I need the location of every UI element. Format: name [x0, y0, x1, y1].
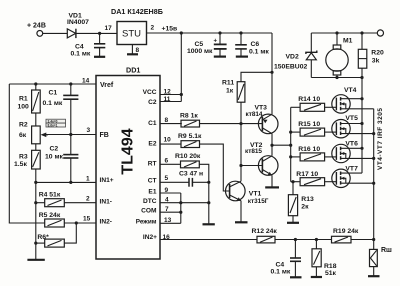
svg-text:R13: R13	[301, 196, 314, 203]
resistor R5	[39, 212, 96, 227]
svg-text:VCC: VCC	[143, 89, 157, 96]
voltage regulator DA1 STU box	[105, 7, 163, 45]
motor bottom wire	[311, 77, 362, 79]
svg-text:Vref: Vref	[100, 82, 114, 89]
divider chain wire	[35, 169, 37, 260]
note box (resistance table)	[46, 119, 66, 127]
resistor R15	[291, 121, 337, 136]
svg-text:R20: R20	[371, 50, 384, 57]
transistor VT2 kt815	[245, 142, 278, 175]
resistor R20	[358, 33, 384, 78]
node COM bracket	[179, 211, 182, 214]
motor M1	[326, 33, 353, 78]
node driver output	[270, 144, 273, 147]
svg-text:150EBU02: 150EBU02	[274, 64, 307, 71]
svg-text:8.6к=1: 8.6к=1	[48, 123, 58, 127]
svg-text:2к: 2к	[301, 203, 309, 210]
wire DTC pin4	[160, 202, 209, 204]
svg-text:VT7: VT7	[345, 165, 358, 172]
motor top wire	[311, 32, 377, 34]
svg-text:3: 3	[87, 127, 91, 134]
svg-text:R8 1к: R8 1к	[180, 112, 198, 119]
Vref wire pin14	[9, 83, 96, 85]
svg-text:R16 10: R16 10	[298, 146, 320, 153]
shunt resistor Rsh	[370, 240, 393, 276]
svg-text:1: 1	[86, 176, 90, 183]
resistor R1	[18, 84, 41, 113]
svg-text:E2: E2	[148, 141, 156, 148]
wire VT1 emitter to ground	[240, 201, 242, 222]
wire RT pin6 with R10	[160, 163, 181, 165]
svg-text:12: 12	[164, 89, 172, 96]
wire base line down to VT1 collector	[240, 124, 242, 182]
svg-text:RT: RT	[148, 161, 157, 168]
svg-text:2: 2	[151, 25, 155, 32]
svg-text:0.1 мк: 0.1 мк	[43, 100, 63, 107]
svg-text:0.1 мк: 0.1 мк	[71, 51, 91, 58]
MOSFET VT7	[332, 165, 374, 187]
svg-text:C1: C1	[148, 120, 157, 127]
svg-text:0.1 мк: 0.1 мк	[249, 49, 269, 56]
wire VT3 collector to node	[271, 134, 273, 146]
node R1 top	[34, 82, 37, 85]
drain rail	[361, 78, 363, 174]
node C5	[218, 31, 221, 34]
svg-text:C6: C6	[251, 41, 260, 48]
diode VD2 150EBU02	[274, 33, 317, 78]
svg-text:6: 6	[165, 158, 169, 165]
resistor R14	[291, 96, 337, 111]
IN1+ wire pin1	[36, 181, 96, 183]
svg-text:10: 10	[164, 137, 172, 144]
node chain/IN1+	[34, 181, 37, 184]
svg-text:2: 2	[86, 196, 90, 203]
node source rail / bus	[372, 238, 375, 241]
svg-text:C3 47 н: C3 47 н	[179, 171, 203, 178]
node M1 top	[335, 31, 338, 34]
svg-text:C1: C1	[49, 90, 58, 97]
node source VT6	[372, 157, 375, 160]
MOSFET VT4	[332, 87, 374, 113]
svg-text:IN4007: IN4007	[67, 19, 89, 26]
svg-text:R10 20к: R10 20к	[175, 153, 201, 160]
node gate rail R16	[289, 155, 292, 158]
node DTC ground line	[207, 201, 210, 204]
resistor R6	[34, 223, 76, 247]
node drain VT5	[360, 122, 363, 125]
node R20 top	[360, 31, 363, 34]
svg-text:R15 10: R15 10	[298, 121, 320, 128]
node VT2 base tap	[239, 164, 242, 167]
svg-text:кт814: кт814	[246, 111, 263, 118]
node drain rail top	[360, 76, 363, 79]
svg-text:E1: E1	[148, 189, 156, 196]
node drain VT6	[360, 147, 363, 150]
svg-text:IN2+: IN2+	[143, 234, 157, 241]
svg-text:R9 5.1к: R9 5.1к	[178, 133, 202, 140]
node C2/IN1+	[69, 181, 72, 184]
capacitor C2	[45, 135, 78, 183]
MOSFET VT6	[332, 140, 374, 162]
IC DD1 TL494 box	[96, 66, 160, 260]
wire +15 riser to VCC/C2 pins	[160, 33, 183, 102]
terminal +24V input	[37, 31, 43, 37]
svg-text:R14 10: R14 10	[298, 96, 320, 103]
svg-text:VD2: VD2	[286, 54, 299, 61]
wire input to VD1	[42, 32, 67, 34]
svg-text:10 мк: 10 мк	[45, 154, 63, 161]
wire E2 pin10 with R9	[160, 143, 181, 145]
svg-text:CT: CT	[148, 178, 157, 185]
node gate rail input	[289, 144, 292, 147]
svg-text:STU: STU	[122, 29, 141, 40]
resistor R9	[178, 133, 202, 148]
ground Rsh	[368, 275, 380, 277]
resistor R8	[180, 112, 200, 127]
svg-text:R17 10: R17 10	[296, 171, 318, 178]
resistor R3	[14, 150, 40, 169]
svg-text:IN1-: IN1-	[100, 199, 112, 206]
svg-text:C2: C2	[50, 146, 59, 153]
transistor VT1 kt315	[226, 181, 269, 205]
svg-text:DD1: DD1	[126, 66, 140, 75]
svg-text:0.1 мк: 0.1 мк	[271, 269, 291, 276]
bracket E1/DTC/COM/mode	[180, 193, 182, 223]
node R11 bottom / base line	[239, 122, 242, 125]
svg-text:M1: M1	[343, 38, 353, 45]
node R18/R19	[315, 238, 318, 241]
svg-text:R3: R3	[19, 154, 28, 161]
node C1 top	[69, 82, 72, 85]
transistor VT3 kt814	[246, 105, 279, 134]
svg-text:R12 24к: R12 24к	[252, 228, 278, 235]
svg-text:R2: R2	[19, 122, 28, 129]
wire E1 pin9	[160, 192, 181, 194]
resistor R16	[291, 146, 337, 161]
svg-text:R1: R1	[19, 96, 28, 103]
wire R1-R2	[35, 113, 37, 126]
svg-text:IN2-: IN2-	[100, 219, 112, 226]
node C1/FB	[69, 133, 72, 136]
svg-text:R11: R11	[222, 80, 234, 87]
wire R9 to VT1 base	[200, 144, 230, 191]
svg-text:15: 15	[83, 216, 91, 223]
capacitor C5 electrolytic	[187, 33, 227, 56]
+15 riser to driver	[271, 33, 273, 114]
resistor R13	[288, 180, 314, 222]
wire VD1 to STU pin17	[77, 32, 118, 34]
svg-text:51к: 51к	[325, 270, 337, 277]
ground C4 input	[94, 56, 105, 58]
capacitor C1	[43, 84, 79, 134]
svg-text:8: 8	[136, 47, 140, 54]
svg-text:R6*: R6*	[37, 234, 49, 241]
+15v rail	[147, 32, 273, 34]
svg-text:5: 5	[165, 175, 169, 182]
resistor R4	[34, 191, 96, 206]
svg-text:DTC: DTC	[143, 198, 157, 205]
capacitor C3	[179, 171, 209, 187]
svg-text:COM: COM	[141, 208, 157, 215]
node source VT5	[372, 132, 375, 135]
wire R10 to ground line	[199, 164, 209, 224]
svg-text:DA1 К142ЕН8Б: DA1 К142ЕН8Б	[111, 7, 163, 16]
svg-text:R19 24к: R19 24к	[333, 228, 359, 235]
ground C4 bottom	[290, 276, 302, 278]
svg-text:FB: FB	[100, 132, 109, 139]
gate rail	[290, 107, 292, 181]
ground VT2	[265, 186, 279, 188]
svg-text:R18: R18	[324, 263, 337, 270]
capacitor C6	[235, 33, 269, 56]
svg-text:TL494: TL494	[120, 128, 137, 174]
svg-text:100: 100	[18, 104, 30, 111]
svg-text:кт315Г: кт315Г	[248, 198, 269, 205]
resistor R17	[291, 171, 337, 186]
svg-text:6к: 6к	[19, 132, 27, 139]
svg-text:IN1+: IN1+	[100, 177, 114, 184]
wire R8 to VT3 base	[200, 123, 263, 125]
wire VT2 collector to node	[271, 145, 273, 156]
node gate rail R15	[289, 131, 292, 134]
svg-text:R5 24к: R5 24к	[39, 212, 61, 219]
svg-text:VT1: VT1	[249, 191, 262, 198]
capacitor C4 (input)	[71, 33, 106, 57]
node VCC riser	[180, 31, 183, 34]
wire mode pin13	[160, 222, 181, 224]
wire C1 pin8 with R8	[160, 123, 182, 125]
node CT/ground line	[207, 181, 210, 184]
svg-text:C5: C5	[195, 41, 204, 48]
node R6 riser on pin15 wire	[75, 221, 78, 224]
svg-text:3k: 3k	[372, 58, 380, 65]
svg-text:1.5к: 1.5к	[14, 161, 27, 168]
ground TL494 aux	[203, 223, 215, 225]
svg-text:VT4: VT4	[344, 87, 357, 94]
svg-text:VT5: VT5	[345, 115, 358, 122]
svg-text:Режим: Режим	[136, 219, 157, 226]
node DTC bracket	[179, 201, 182, 204]
terminal output	[377, 30, 383, 36]
ground chain	[27, 259, 44, 261]
svg-text:кт815: кт815	[245, 148, 262, 155]
svg-text:Rш: Rш	[381, 247, 392, 254]
node M1 bottom	[335, 76, 338, 79]
node drain VT4	[360, 97, 363, 100]
node C6	[239, 31, 242, 34]
svg-text:R4 51к: R4 51к	[39, 191, 61, 198]
capacitor C4 (bottom)	[271, 240, 302, 277]
resistor R10	[175, 153, 201, 168]
resistor R11	[222, 72, 272, 123]
svg-text:1к: 1к	[226, 88, 234, 95]
ground R18	[311, 276, 322, 278]
svg-text:C4: C4	[276, 262, 285, 269]
wire COM pin7	[160, 211, 181, 213]
potentiometer R2	[19, 122, 48, 144]
wire R2-R3	[35, 144, 37, 151]
pin 8 of STU to ground	[131, 45, 133, 54]
svg-text:8: 8	[165, 117, 169, 124]
resistor R19	[332, 228, 359, 243]
ground VT1	[235, 221, 248, 223]
svg-text:1000 мк: 1000 мк	[187, 48, 213, 55]
node source VT7	[372, 182, 375, 185]
svg-text:+ 24В: + 24В	[27, 23, 46, 30]
svg-text:17: 17	[105, 25, 113, 32]
svg-text:VT4-VT7 IRF 3205: VT4-VT7 IRF 3205	[377, 108, 384, 170]
resistor R18	[312, 240, 337, 278]
node C4 bottom tap	[294, 238, 297, 241]
ground C5	[214, 55, 226, 57]
svg-text:+15в: +15в	[162, 26, 178, 33]
svg-text:11: 11	[164, 96, 171, 103]
node R11 tap on +15 riser	[270, 71, 273, 74]
left outer wire	[9, 84, 44, 223]
ground STU	[127, 53, 138, 55]
diode VD1	[67, 12, 89, 38]
wire driver output to gate rail	[272, 144, 291, 146]
FB wire pin3	[44, 134, 96, 136]
wire IN2+ pin16 bottom bus	[160, 239, 374, 241]
resistor R12	[252, 228, 278, 243]
node C4 tap	[98, 32, 101, 35]
source rail	[373, 109, 375, 240]
svg-text:C2: C2	[148, 99, 157, 106]
svg-text:VT6: VT6	[345, 140, 358, 147]
wire VT2 base	[241, 165, 262, 167]
MOSFET VT5	[332, 115, 374, 138]
wire CT pin5 with C3	[160, 181, 189, 183]
ground C6	[236, 55, 248, 57]
ground R13	[287, 222, 299, 224]
wire VT2 emitter to ground	[271, 175, 273, 187]
